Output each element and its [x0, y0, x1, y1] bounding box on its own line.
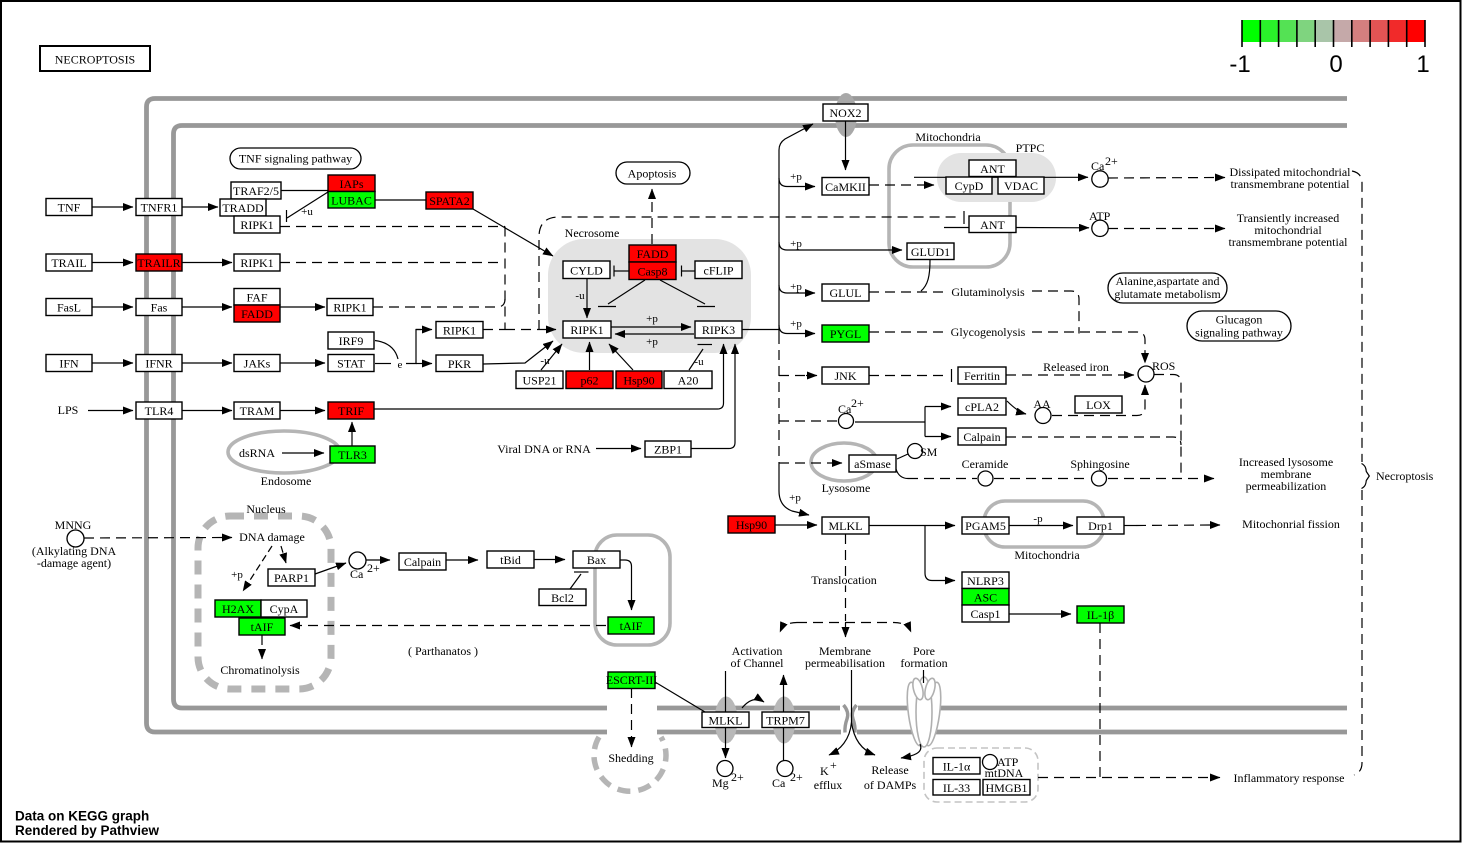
svg-text:+p: +p [790, 171, 802, 183]
membrane gap curls [844, 705, 857, 733]
svg-text:NOX2: NOX2 [830, 106, 862, 120]
wire PTPC->Ca2+ [914, 176, 1088, 178]
gene LUBAC [328, 192, 375, 209]
dashed ESCRT-III->Shedding [631, 688, 633, 740]
dashed aSmase->Ceramide->Sphingosine->permeabilization [896, 469, 908, 479]
svg-text:Hsp90: Hsp90 [623, 374, 654, 388]
gene NOX2 [823, 104, 868, 121]
svg-text:Mitochondria: Mitochondria [1014, 548, 1080, 562]
wire TLR4->TRAM [182, 410, 232, 412]
svg-text:Data on KEGG graph: Data on KEGG graph [15, 809, 149, 824]
node Sphingosine [1092, 471, 1107, 486]
dashed Ferritin->released iron->ROS [1006, 374, 1128, 376]
svg-text:TRADD: TRADD [222, 201, 264, 215]
dashed vertical merge x=505 [504, 227, 506, 330]
wire TRAIL->TRAILR [92, 262, 133, 264]
wire FasL->Fas [92, 306, 133, 308]
wire ANT2->ATP [1016, 227, 1089, 229]
wire activation line to Mg [725, 671, 727, 758]
svg-text:GLUD1: GLUD1 [911, 245, 950, 259]
svg-text:-1: -1 [1229, 51, 1250, 78]
gene TLR3 [330, 446, 375, 463]
node Ca2+ (PARP1) [349, 552, 366, 569]
gene JAKs [234, 355, 280, 372]
wire TRIF->RIPK3 long elbow [374, 344, 724, 409]
gene IL-1b [1077, 606, 1124, 623]
gene Bax [573, 551, 620, 568]
svg-text:FADD: FADD [241, 307, 273, 321]
svg-text:TRIF: TRIF [338, 404, 364, 418]
svg-text:RIPK1: RIPK1 [570, 323, 603, 337]
svg-text:Necrosome: Necrosome [565, 226, 620, 240]
node AA [1035, 408, 1051, 424]
dashed trunk->JNK [779, 375, 806, 377]
dashed MNNG->DNA damage [84, 537, 226, 540]
NOX2 channel ellipse [835, 93, 857, 137]
gene TRAM [234, 402, 280, 419]
+u inhibition IAPs->RIPK1 [287, 192, 328, 218]
wire GLUD1 curve to glutaminolysis [921, 260, 930, 291]
gene H2AX [215, 600, 261, 617]
svg-text:TRPM7: TRPM7 [766, 714, 805, 728]
svg-text:HMGB1: HMGB1 [985, 781, 1027, 795]
brace [1362, 464, 1370, 489]
svg-text:+p: +p [646, 336, 658, 348]
svg-text:transmembrane potential: transmembrane potential [1231, 177, 1351, 191]
node Ca2+ (bottom) [777, 761, 793, 777]
dashed trunk->aSmase [779, 462, 832, 464]
inhibition Casp8 -| CYLD [613, 266, 615, 277]
outer plasma membrane [147, 99, 1348, 733]
svg-text:dsRNA: dsRNA [239, 446, 275, 460]
svg-text:RIPK1: RIPK1 [443, 324, 476, 338]
dashed MLKL translocation down [845, 534, 847, 621]
svg-text:Mitochondria: Mitochondria [915, 130, 981, 144]
svg-text:Mitochonrial fission: Mitochonrial fission [1242, 517, 1340, 531]
svg-text:MNNG: MNNG [55, 518, 92, 532]
gene GLUL [822, 284, 869, 301]
pathway Glucagon [1187, 311, 1291, 341]
trunk solid to MLKL [779, 468, 809, 515]
gene STAT [328, 355, 374, 372]
svg-text:PYGL: PYGL [830, 327, 861, 341]
svg-text:Translocation: Translocation [811, 573, 877, 587]
svg-text:formation: formation [900, 656, 947, 670]
svg-text:Fas: Fas [151, 301, 168, 315]
gene TRAILR [136, 254, 182, 271]
svg-text:Ceramide: Ceramide [962, 457, 1009, 471]
svg-text:TNF: TNF [58, 201, 81, 215]
dashed RIPK1(Fas) right with corner up [373, 299, 505, 307]
wire pore->DAMPs [901, 744, 921, 758]
dashed umbrella split [797, 622, 894, 624]
svg-text:LUBAC: LUBAC [331, 194, 372, 208]
svg-text:aSmase: aSmase [854, 457, 891, 471]
svg-text:RIPK1: RIPK1 [240, 256, 273, 270]
node MNNG [67, 530, 84, 547]
gene PKR [436, 355, 483, 372]
gene Drp1 [1077, 517, 1124, 534]
svg-text:Ca: Ca [772, 776, 786, 790]
svg-text:+u: +u [301, 206, 313, 218]
mitochondria outline (PGAM5) [984, 501, 1104, 547]
gene tAIF (nucleus) [239, 618, 285, 635]
wire TRAILR->RIPK1 [182, 262, 232, 264]
svg-text:TLR4: TLR4 [145, 404, 174, 418]
gene IL-33 [933, 780, 980, 796]
wire SPATA2->necrosome [473, 209, 553, 256]
svg-text:Casp8: Casp8 [638, 265, 668, 279]
gene USP21 [516, 371, 563, 389]
svg-text:Hsp90: Hsp90 [736, 518, 767, 532]
svg-text:IFNR: IFNR [145, 357, 172, 371]
dashed AA->LOX->ROS [1052, 392, 1145, 416]
necrosome gray blob [548, 239, 751, 353]
gene CaMKII [822, 178, 869, 196]
wire Ca2+->Calpain [366, 559, 390, 561]
svg-text:tBid: tBid [500, 553, 521, 567]
svg-text:efflux: efflux [814, 778, 842, 792]
gene FasL [46, 299, 92, 316]
svg-text:USP21: USP21 [522, 374, 556, 388]
gene Fas [136, 299, 182, 316]
svg-text:JNK: JNK [834, 369, 856, 383]
svg-text:0: 0 [1329, 51, 1342, 78]
svg-text:K: K [820, 764, 829, 778]
dashed arrow into necrosome RIPK1 [483, 329, 505, 331]
MLKL channel ellipse [715, 697, 738, 744]
svg-text:of DAMPs: of DAMPs [864, 778, 917, 792]
gene RIPK1 (TRAIL) [234, 254, 280, 271]
dashed necroptosis bracket [1352, 171, 1362, 462]
wire IRF9 curve to e [375, 341, 398, 360]
gene Hsp90 (necrosome) [616, 371, 662, 389]
gene TRAF2/5 [231, 182, 281, 199]
dashed tAIF->Chromatinolysis [261, 635, 263, 652]
svg-text:PTPC: PTPC [1016, 141, 1045, 155]
svg-text:Glycogenolysis: Glycogenolysis [951, 325, 1026, 339]
svg-text:Shedding: Shedding [608, 751, 653, 765]
wire Calpain->tBid [446, 559, 478, 561]
gene FADD (Fas) [234, 305, 280, 322]
wire mito line to ANT2 [944, 227, 969, 229]
inhibition Bcl2 -| Bax [570, 574, 581, 589]
svg-text:IL-1α: IL-1α [943, 760, 971, 774]
gene cFLIP [695, 261, 742, 279]
gene RIPK1 (Fas) [327, 299, 373, 316]
svg-text:Chromatinolysis: Chromatinolysis [220, 663, 300, 677]
wire Hsp90->RIPK1 [609, 344, 633, 370]
svg-text:Apoptosis: Apoptosis [628, 167, 677, 181]
wire Bax->tAIF [620, 560, 632, 610]
pathway TNF signaling [230, 148, 361, 169]
svg-text:2+: 2+ [367, 561, 380, 575]
svg-text:tAIF: tAIF [620, 619, 643, 633]
svg-text:Calpain: Calpain [404, 555, 441, 569]
gene Ferritin [958, 367, 1006, 384]
svg-text:Endosome: Endosome [261, 474, 312, 488]
wire Hsp90->MLKL [775, 524, 817, 526]
svg-text:Ca: Ca [350, 567, 364, 581]
wire pore formation line [923, 670, 925, 683]
gene ASC [962, 589, 1009, 606]
gene Casp1 [962, 605, 1009, 622]
svg-text:glutamate metabolism: glutamate metabolism [1114, 287, 1221, 301]
svg-text:ANT: ANT [980, 162, 1005, 176]
dashed Ca2+->dissipated [1108, 177, 1219, 180]
endosome ellipse [228, 431, 340, 473]
wire TRAF2/5 - IAPs [281, 190, 328, 192]
gene TRIF [328, 402, 374, 419]
svg-text:Sphingosine: Sphingosine [1070, 457, 1129, 471]
svg-text:TRAIL: TRAIL [51, 256, 86, 270]
inhibition Casp8 -| RIPK3 [660, 280, 705, 304]
pathway Alanine aspartate [1108, 273, 1227, 303]
svg-text:TRAF2/5: TRAF2/5 [233, 184, 279, 198]
svg-text:IL-1β: IL-1β [1087, 608, 1114, 622]
dashed ROS->right down [1154, 375, 1181, 479]
wire PKR->RIPK1 [483, 341, 553, 364]
svg-text:IAPs: IAPs [339, 177, 363, 191]
svg-text:Glutaminolysis: Glutaminolysis [951, 285, 1025, 299]
node Ca2+ (mito) [1092, 171, 1108, 187]
gene tBid [487, 551, 534, 568]
wire IFNR->JAKs [182, 362, 232, 364]
svg-text:Calpain: Calpain [963, 430, 1000, 444]
svg-text:+: + [830, 758, 837, 772]
gene FADD (necrosome) [629, 245, 676, 262]
gene SPATA2 [426, 192, 473, 209]
gene NLRP3 [962, 572, 1009, 589]
svg-text:2+: 2+ [851, 396, 864, 410]
node Ca2+ (trunk) [839, 414, 854, 429]
svg-text:SPATA2: SPATA2 [429, 194, 470, 208]
node ROS [1138, 366, 1154, 382]
gene Calpain (2) [958, 428, 1006, 445]
svg-text:A20: A20 [678, 374, 699, 388]
svg-text:STAT: STAT [337, 357, 365, 371]
gene IL-1a [933, 758, 980, 775]
svg-text:1: 1 [1416, 51, 1429, 78]
svg-text:+p: +p [790, 318, 802, 330]
svg-text:RIPK1: RIPK1 [333, 301, 366, 315]
wire membrane permeabilisation K+/DAMPs [851, 670, 853, 722]
pore petals [904, 677, 944, 747]
legend cells [1242, 20, 1260, 42]
wire MLKL->PGAM5 [869, 525, 955, 527]
gene CypD [946, 177, 992, 194]
wire ViralDNA->ZBP1 [596, 448, 641, 450]
svg-text:SM: SM [920, 445, 938, 459]
svg-text:DNA damage: DNA damage [239, 530, 305, 544]
gene JNK [822, 367, 869, 384]
dashed JNK -| Ferritin [869, 375, 945, 377]
svg-text:IRF9: IRF9 [339, 334, 364, 348]
mitochondria outline (tAIF) [595, 535, 670, 645]
gene CypA [261, 600, 307, 617]
gene Bcl2 [539, 589, 586, 606]
svg-text:Ca: Ca [1091, 159, 1105, 173]
node Mg2+ [717, 761, 733, 777]
wire STAT to e [375, 363, 391, 365]
wire LUBAC - SPATA2 [375, 199, 426, 201]
svg-text:Viral DNA or RNA: Viral DNA or RNA [497, 442, 591, 456]
svg-text:TRAILR: TRAILR [137, 256, 180, 270]
svg-text:FasL: FasL [57, 301, 81, 315]
DAMPs dashed container [924, 748, 1038, 802]
legend labels [1229, 51, 1429, 78]
svg-text:TNFR1: TNFR1 [141, 201, 178, 215]
svg-text:CaMKII: CaMKII [825, 180, 866, 194]
wire Casp1->IL-1b [1009, 613, 1071, 615]
dashed GLUL-Glutaminolysis-corner [869, 291, 944, 293]
gene A20 [664, 371, 712, 389]
svg-text:-p: -p [1033, 513, 1043, 525]
wire e elbow to RIPK1/PKR [406, 330, 421, 364]
mitochondria outline (PTPC) [889, 145, 1010, 267]
svg-text:Mg: Mg [712, 776, 729, 790]
svg-text:e: e [398, 359, 403, 371]
node ATP (DAMPs) [983, 755, 998, 770]
svg-text:ESCRT-III: ESCRT-III [606, 673, 658, 687]
wire LPS->TLR4 [88, 410, 133, 412]
gene aSmase [849, 455, 896, 472]
gene ANT (PTPC) [969, 160, 1016, 177]
gene TRPM7 [762, 712, 809, 728]
svg-text:permeabilisation: permeabilisation [805, 656, 885, 670]
svg-text:Nucleus: Nucleus [246, 502, 286, 516]
gene Hsp90 (MLKL) [728, 516, 775, 533]
svg-text:-u: -u [694, 356, 704, 368]
svg-text:+p: +p [790, 238, 802, 250]
wire MLKL->TRPM7 arc [742, 700, 764, 708]
svg-text:+p: +p [789, 492, 801, 504]
svg-text:Alanine,aspartate and: Alanine,aspartate and [1116, 274, 1220, 288]
svg-text:permeabilization: permeabilization [1246, 479, 1327, 493]
gene ZBP1 [645, 441, 691, 457]
wire MLKL->NLRP3 branch [925, 526, 955, 581]
gene RIPK1 (TNF) [234, 216, 280, 233]
svg-text:-u: -u [575, 290, 585, 302]
svg-text:PGAM5: PGAM5 [965, 519, 1006, 533]
svg-text:Drp1: Drp1 [1088, 519, 1113, 533]
wire IFN->IFNR [92, 362, 133, 364]
svg-text:Released iron: Released iron [1043, 360, 1109, 374]
gene PARP1 [268, 569, 315, 586]
legend ticks [1242, 20, 1425, 47]
wire NOX2->CaMKII [845, 121, 847, 170]
svg-text:MLKL: MLKL [709, 714, 743, 728]
svg-text:TNF signaling pathway: TNF signaling pathway [239, 152, 352, 166]
svg-text:( Parthanatos ): ( Parthanatos ) [408, 644, 478, 658]
wire tBid->Bax [534, 559, 565, 561]
nucleus dashed rounded rect [198, 516, 331, 689]
svg-text:mtDNA: mtDNA [985, 766, 1024, 780]
gene PGAM5 [962, 517, 1009, 534]
gene Casp8 [629, 262, 676, 280]
node Ceramide [978, 471, 993, 486]
wire JAKs->STAT [280, 362, 325, 364]
gene tAIF (mito) [608, 617, 654, 634]
gene RIPK3 [695, 321, 742, 338]
gene LOX [1075, 396, 1122, 413]
svg-text:H2AX: H2AX [222, 602, 254, 616]
gene IFN [46, 355, 92, 372]
dashed DNA damage->PARP1 [281, 546, 286, 563]
svg-text:MLKL: MLKL [829, 519, 863, 533]
svg-text:FAF: FAF [246, 291, 267, 305]
gene PYGL [822, 325, 869, 342]
svg-text:PKR: PKR [448, 357, 471, 371]
svg-text:PARP1: PARP1 [274, 571, 309, 585]
svg-text:p62: p62 [581, 374, 599, 388]
wire Ca->cPLA2/Calpain split [855, 407, 925, 437]
wire FADD->RIPK1 [280, 306, 325, 308]
svg-text:Release: Release [871, 763, 908, 777]
TRPM7 channel ellipse [773, 697, 796, 744]
gene FAF [234, 289, 280, 306]
svg-text:tAIF: tAIF [251, 620, 274, 634]
gene TRADD [220, 199, 266, 216]
inner plasma membrane [174, 126, 1348, 709]
svg-text:Necroptosis: Necroptosis [1376, 469, 1434, 483]
svg-text:ASC: ASC [974, 591, 997, 605]
dashed ATP->transiently [1108, 228, 1218, 230]
title box [40, 46, 150, 71]
gene p62 [566, 371, 613, 389]
svg-text:2+: 2+ [790, 770, 803, 784]
gene ESCRT-III [608, 672, 655, 689]
wire PARP1->Ca2+ [315, 563, 346, 574]
svg-text:TRAM: TRAM [240, 404, 275, 418]
gene TLR4 [136, 402, 182, 419]
svg-text:TLR3: TLR3 [338, 448, 367, 462]
node SM [908, 444, 923, 459]
dashed necrosome -| ANT (top edge of dashed container) [539, 217, 958, 330]
dashed Drp1->fission [1124, 525, 1136, 527]
gene TRAIL [46, 254, 92, 271]
svg-text:VDAC: VDAC [1004, 179, 1038, 193]
inhibition cFLIP -| Casp8 [681, 266, 683, 277]
svg-text:ATP: ATP [1089, 209, 1111, 223]
svg-text:signaling pathway: signaling pathway [1195, 326, 1283, 340]
dashed ->inflammatory response [1038, 777, 1212, 779]
dashed Calpain->lysosome junction [1006, 437, 1181, 445]
gene Calpain (1) [399, 553, 446, 570]
gene CYLD [563, 261, 610, 279]
dashed CaMKII->CypD [869, 184, 926, 186]
trunk solid upper [779, 124, 813, 334]
gene IFNR [136, 355, 182, 372]
lysosome ellipse [811, 443, 877, 481]
svg-text:CYLD: CYLD [570, 264, 603, 278]
wire Ca influx up [783, 675, 785, 760]
wire dsRNA->TLR3 [282, 452, 324, 454]
gene cPLA2 [958, 398, 1006, 415]
svg-text:2+: 2+ [1105, 154, 1118, 168]
dashed IL-1b down [1099, 623, 1101, 778]
gene IAPs [328, 175, 375, 192]
wire TRAM->TRIF [280, 410, 325, 412]
wire aSmase-SM [897, 454, 908, 459]
PTPC gray blob [937, 153, 1056, 202]
dashed Casp8->Apoptosis [651, 196, 653, 244]
gene ANT (2) [969, 216, 1016, 233]
gene MLKL [822, 517, 869, 534]
svg-text:ROS: ROS [1152, 359, 1175, 373]
svg-text:ANT: ANT [980, 218, 1005, 232]
svg-text:JAKs: JAKs [244, 357, 271, 371]
